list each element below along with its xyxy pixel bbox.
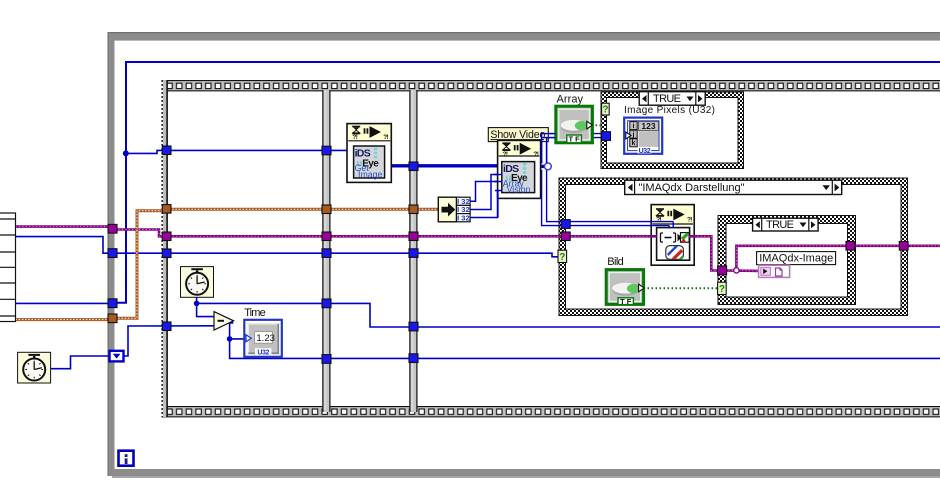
svg-text:Image Pixels (U32): Image Pixels (U32) [624,105,715,116]
svg-text:123: 123 [641,121,655,131]
svg-text:T F: T F [568,135,580,144]
svg-text:I 32: I 32 [457,213,470,222]
svg-text:"IMAQdx Darstellung": "IMAQdx Darstellung" [639,182,745,194]
svg-text:k: k [632,140,636,147]
svg-text:?: ? [602,105,608,116]
svg-text:TRUE: TRUE [766,219,794,231]
svg-text:?: ? [559,252,565,263]
svg-text:j: j [632,132,635,139]
svg-text:i: i [633,123,635,130]
svg-text:?: ? [719,284,725,295]
svg-text:IMAQdx-Image: IMAQdx-Image [759,253,833,265]
svg-text:Time: Time [244,307,266,319]
svg-text:Bild: Bild [607,256,624,268]
svg-text:TRUE: TRUE [653,93,681,105]
svg-text:Image: Image [358,169,383,179]
svg-text:Vision: Vision [507,184,531,194]
svg-text:U32: U32 [639,148,651,155]
svg-text:U32: U32 [257,349,269,356]
svg-text:T F: T F [620,297,632,306]
svg-text:1.23: 1.23 [256,333,275,344]
svg-text:Array: Array [557,94,584,106]
